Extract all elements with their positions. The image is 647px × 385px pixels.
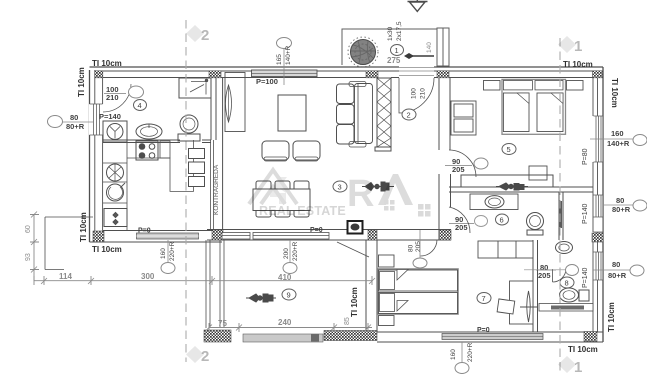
svg-text:160: 160 bbox=[611, 129, 624, 138]
left wall window glazing bbox=[90, 104, 103, 135]
porch entry marker bbox=[404, 53, 414, 59]
svg-text:240: 240 bbox=[278, 318, 292, 327]
living bottom window 1 bbox=[222, 233, 250, 240]
sofa seat 1 bbox=[262, 141, 289, 160]
kitchen bottom window bbox=[137, 228, 199, 240]
terrace step dark square bbox=[311, 334, 319, 342]
stove bbox=[136, 141, 158, 160]
hatch top-left corner bbox=[95, 71, 103, 78]
desk bedroom7 bbox=[510, 281, 534, 324]
svg-text:160: 160 bbox=[450, 349, 457, 360]
kitchen sink small bbox=[160, 141, 170, 158]
svg-text:205: 205 bbox=[455, 223, 468, 232]
room number 9 bbox=[282, 289, 296, 300]
big sofa right bbox=[355, 84, 373, 144]
svg-text:80+R: 80+R bbox=[612, 205, 631, 214]
svg-text:TI 10cm: TI 10cm bbox=[610, 78, 619, 108]
ceiling fan symbol bbox=[362, 182, 394, 191]
room number 3 bbox=[333, 181, 347, 192]
right balloon 80/80+R lower bbox=[593, 260, 644, 280]
svg-text:1: 1 bbox=[574, 38, 582, 55]
vanity counter bbox=[539, 304, 593, 312]
washing machine bbox=[103, 121, 127, 142]
door 80/205 bottom living bbox=[421, 240, 438, 257]
corner hatch blocks bbox=[93, 71, 603, 342]
svg-text:TI 10cm: TI 10cm bbox=[92, 245, 122, 254]
svg-text:4: 4 bbox=[138, 101, 142, 110]
sink circle bbox=[107, 184, 124, 201]
room number 8 bbox=[560, 277, 574, 288]
svg-text:75: 75 bbox=[218, 319, 227, 328]
hatch right wall joint bbox=[592, 233, 603, 242]
chair desk bbox=[497, 299, 515, 314]
watermark corner diamonds bbox=[186, 25, 576, 373]
left wall window gap cover bbox=[89, 104, 104, 135]
porch plant bbox=[348, 37, 378, 67]
svg-text:140+R: 140+R bbox=[607, 139, 630, 148]
left block bottom wall bbox=[90, 231, 223, 243]
svg-text:300: 300 bbox=[141, 272, 155, 281]
svg-text:TI 10cm: TI 10cm bbox=[350, 287, 359, 317]
svg-text:85: 85 bbox=[344, 317, 351, 325]
svg-text:80+R: 80+R bbox=[608, 271, 627, 280]
kitchen counter edges bbox=[127, 140, 194, 231]
svg-text:1: 1 bbox=[574, 359, 582, 376]
svg-text:140: 140 bbox=[426, 42, 433, 53]
section line 2 bbox=[185, 20, 187, 362]
svg-text:7: 7 bbox=[482, 294, 486, 303]
svg-text:KONTRAGREDA: KONTRAGREDA bbox=[213, 164, 220, 215]
svg-text:165: 165 bbox=[276, 54, 283, 65]
svg-text:1x30: 1x30 bbox=[387, 27, 394, 41]
window right 80 upper bbox=[582, 195, 603, 232]
toilet bath8 bbox=[560, 288, 590, 302]
bath sink bbox=[136, 124, 162, 139]
top window balloon 165/140+R bbox=[276, 38, 292, 86]
svg-text:100: 100 bbox=[411, 88, 418, 99]
room6 wc divider bbox=[559, 192, 563, 240]
hatch living bottom mid bbox=[368, 230, 377, 240]
svg-text:80+R: 80+R bbox=[66, 122, 85, 131]
svg-text:210: 210 bbox=[420, 88, 427, 99]
svg-text:93: 93 bbox=[25, 253, 32, 261]
right outer wall triple line bbox=[602, 67, 604, 342]
sofa seat 2 bbox=[293, 141, 320, 160]
svg-text:60: 60 bbox=[25, 225, 32, 233]
terrace left edge bbox=[206, 240, 224, 328]
bath door arc bbox=[103, 84, 131, 112]
left window balloon 80/80+R bbox=[48, 113, 94, 131]
door to bedroom5 bbox=[449, 150, 476, 177]
svg-text:9: 9 bbox=[287, 291, 291, 300]
svg-text:TI 10cm: TI 10cm bbox=[79, 212, 88, 242]
kontragreda beam lines bbox=[211, 140, 214, 230]
lower wing left wall bbox=[366, 240, 377, 332]
bedside cabinet right bbox=[567, 81, 584, 91]
svg-text:6: 6 bbox=[500, 216, 504, 225]
svg-text:TI 10cm: TI 10cm bbox=[607, 302, 616, 332]
bedside table bbox=[379, 316, 395, 326]
svg-text:P=100: P=100 bbox=[256, 77, 278, 86]
room6 sink bbox=[485, 196, 504, 208]
section line 1 bbox=[559, 38, 561, 371]
wing window balloon 160/220+R bbox=[450, 342, 474, 374]
terrace corner diagonal bbox=[337, 242, 369, 257]
bedroom5 / room6 divider bbox=[449, 187, 593, 192]
svg-text:2: 2 bbox=[407, 111, 411, 120]
svg-text:220+R: 220+R bbox=[292, 241, 299, 261]
shower door leaf bbox=[527, 291, 531, 322]
svg-text:80: 80 bbox=[408, 244, 415, 252]
hatch living bottom joint bbox=[212, 230, 223, 240]
svg-text:410: 410 bbox=[278, 273, 292, 282]
fan symbol bedroom5 bbox=[496, 183, 528, 190]
svg-text:P=0: P=0 bbox=[477, 327, 490, 334]
right balloon 160/140+R bbox=[590, 129, 647, 148]
bedside cabinet left bbox=[484, 81, 584, 91]
svg-text:P=0: P=0 bbox=[310, 227, 323, 234]
grill black box bbox=[348, 221, 363, 234]
kitchen window balloon 160/220+R bbox=[160, 240, 176, 274]
svg-text:2: 2 bbox=[201, 348, 209, 365]
svg-text:TI 10cm: TI 10cm bbox=[92, 59, 122, 68]
terrace pillar hatch left bbox=[204, 330, 231, 342]
hatch top wall porch right bbox=[437, 71, 449, 78]
front door arc bbox=[399, 78, 434, 113]
svg-text:5: 5 bbox=[507, 145, 511, 154]
svg-text:2x17,5: 2x17,5 bbox=[396, 21, 403, 41]
north arrow bbox=[408, 0, 428, 11]
bath bottom wall bbox=[103, 140, 211, 143]
svg-text:2: 2 bbox=[201, 27, 209, 44]
svg-text:1: 1 bbox=[395, 46, 399, 55]
svg-text:80: 80 bbox=[616, 196, 624, 205]
svg-text:205: 205 bbox=[415, 241, 422, 252]
svg-text:P=0: P=0 bbox=[138, 228, 151, 235]
dining table bbox=[253, 181, 310, 217]
hatch top wall joint bbox=[209, 71, 221, 78]
svg-text:8: 8 bbox=[565, 279, 569, 288]
bath door balloon bbox=[129, 86, 144, 98]
svg-text:TI 10cm: TI 10cm bbox=[77, 67, 86, 97]
terrace step band bbox=[243, 334, 323, 342]
bath8 sink oval bbox=[556, 242, 573, 254]
svg-text:R: R bbox=[347, 173, 374, 215]
living window balloon 200/220+R bbox=[283, 240, 299, 274]
svg-text:TI 10cm: TI 10cm bbox=[568, 345, 598, 354]
svg-text:205: 205 bbox=[452, 165, 465, 174]
svg-text:80: 80 bbox=[70, 113, 78, 122]
svg-text:P=140: P=140 bbox=[99, 112, 121, 121]
toilet bbox=[180, 115, 198, 133]
left outer wall triple line bbox=[89, 70, 91, 242]
wardrobe bedroom7 bbox=[478, 241, 533, 258]
window right P=80 bbox=[582, 116, 603, 165]
svg-text:200: 200 bbox=[283, 248, 290, 259]
svg-text:160: 160 bbox=[160, 248, 167, 259]
wardrobe left bbox=[451, 101, 476, 135]
door 80/205 bath8 bbox=[553, 269, 567, 283]
svg-text:220+R: 220+R bbox=[467, 342, 474, 362]
svg-text:P=140: P=140 bbox=[582, 267, 589, 288]
bath-living wall bbox=[211, 78, 223, 230]
living bottom wall bbox=[207, 230, 451, 241]
double bed bbox=[502, 79, 566, 134]
svg-text:220+R: 220+R bbox=[169, 241, 176, 261]
svg-text:275: 275 bbox=[387, 56, 401, 65]
room6 toilet bbox=[527, 213, 544, 236]
window right 80 lower bbox=[582, 252, 603, 288]
hall right wall bbox=[439, 78, 451, 240]
desk bedroom5 bbox=[461, 166, 553, 187]
svg-text:80: 80 bbox=[612, 260, 620, 269]
lower wing bottom wall bbox=[368, 332, 603, 342]
room number 2 bbox=[402, 109, 416, 120]
bedroom7 bath8 divider bbox=[533, 240, 538, 332]
left vertical dim line bbox=[30, 212, 39, 281]
dishwasher dots cabinet bbox=[104, 209, 127, 227]
room number 5 bbox=[502, 144, 516, 155]
svg-text:P=140: P=140 bbox=[582, 203, 589, 224]
hatch bottom-left corner bbox=[93, 231, 104, 242]
door to room6 bbox=[449, 207, 470, 233]
washer circle bbox=[107, 164, 124, 181]
room number 1 bbox=[391, 45, 404, 56]
bed7 bbox=[378, 269, 458, 314]
svg-text:3: 3 bbox=[338, 183, 342, 192]
room6 radiator dark bar bbox=[559, 201, 563, 228]
room6 sink counter bbox=[470, 194, 518, 210]
main top wall triple line bbox=[90, 66, 604, 68]
radiator plant symbol bbox=[226, 85, 232, 122]
wing bottom window bbox=[442, 327, 543, 340]
living bottom slider window bbox=[253, 227, 329, 239]
kitchen outside corner lines bbox=[45, 217, 93, 270]
bar stools bbox=[189, 149, 205, 187]
room number 4 bbox=[134, 100, 147, 111]
hall ladder wall bbox=[377, 78, 391, 147]
bedside table upper bbox=[379, 255, 395, 267]
shower cabin bbox=[179, 78, 211, 98]
terrace roof edge line bbox=[336, 241, 338, 243]
tall cabinet bbox=[225, 73, 245, 132]
right balloon 80/80+R upper bbox=[603, 196, 647, 214]
svg-text:140+R: 140+R bbox=[285, 45, 292, 65]
terrace dim line bbox=[206, 323, 372, 332]
porch walls bbox=[342, 28, 449, 66]
svg-text:TI 10cm: TI 10cm bbox=[563, 60, 593, 69]
bottom dim line bbox=[34, 276, 375, 285]
terrace hatch band right bbox=[324, 331, 377, 341]
window P=100 top bbox=[252, 70, 318, 86]
watermark logo overlay bbox=[186, 25, 576, 373]
svg-text:114: 114 bbox=[59, 272, 72, 281]
room number 7 bbox=[477, 293, 491, 304]
svg-text:REAL ESTATE: REAL ESTATE bbox=[259, 204, 346, 218]
coffee table bbox=[278, 95, 306, 131]
hatch top wall porch left bbox=[366, 71, 378, 78]
svg-text:P=80: P=80 bbox=[582, 148, 589, 165]
hatch living bottom right bbox=[439, 230, 451, 240]
svg-text:205: 205 bbox=[538, 271, 551, 280]
svg-text:210: 210 bbox=[106, 93, 119, 102]
hatch bottom-right corner bbox=[584, 332, 597, 342]
leader 80/205 interior bbox=[524, 269, 566, 271]
terrace plant bbox=[246, 294, 276, 302]
hatch top-right corner bbox=[593, 71, 603, 78]
room number 6 bbox=[496, 214, 509, 225]
